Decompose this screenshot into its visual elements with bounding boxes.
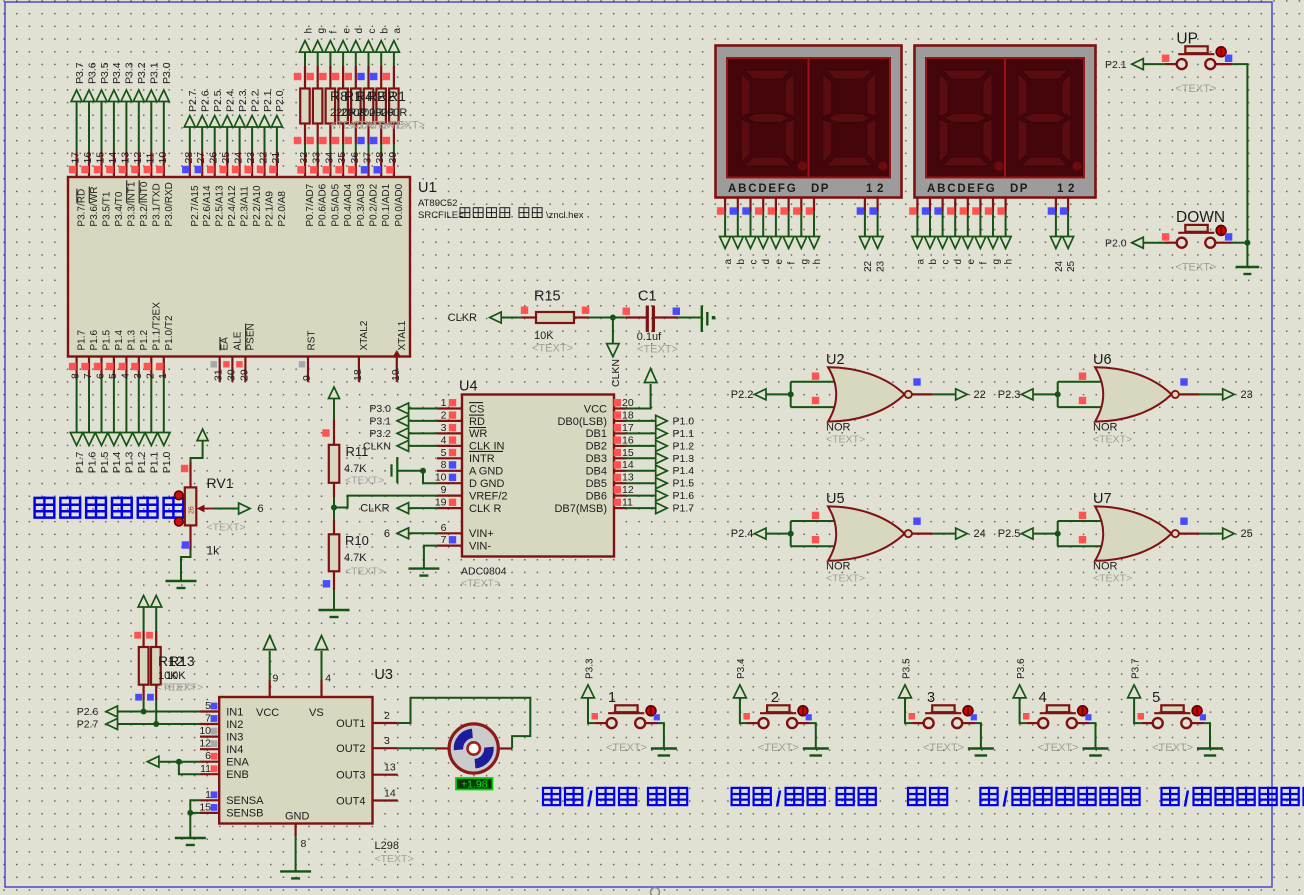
svg-text:24: 24 — [974, 528, 986, 540]
wire OUT2 to motor — [398, 747, 436, 749]
svg-text:15: 15 — [622, 447, 634, 459]
svg-text:P2.0/A8: P2.0/A8 — [277, 191, 288, 227]
blue caption set — [908, 787, 947, 806]
terminal arrow P2.5 — [1022, 528, 1034, 539]
U1 pin 30 (ALE) stub — [223, 357, 237, 382]
resistor R7 of pack (net b) — [370, 52, 386, 144]
net label a — [392, 28, 403, 34]
svg-text:XTAL1: XTAL1 — [397, 320, 408, 350]
U1 pin name P2.1/A9 — [265, 191, 276, 227]
net label 23 — [876, 260, 887, 272]
U3 pin name VCC — [256, 707, 279, 719]
svg-text:SENSB: SENSB — [226, 808, 263, 820]
U1 pin 31 (EA) stub — [211, 357, 225, 382]
svg-text:P3.3: P3.3 — [584, 658, 595, 679]
U1 pin name P1.2 — [139, 329, 150, 350]
U1 pin name P1.7 — [77, 329, 88, 350]
resistor pack TEXT overlap — [330, 120, 425, 132]
terminal arrow net P1.2 — [133, 433, 146, 446]
U1 pin name P3.1/TXD — [151, 183, 162, 226]
potentiometer RV1 body — [185, 487, 197, 525]
svg-text:P1.4: P1.4 — [111, 452, 123, 474]
U1 pin 26 stub+wire net P2.5 — [207, 127, 220, 177]
C1 value 0.1uf — [637, 331, 662, 343]
U3 pin name OUT4 — [336, 795, 365, 807]
wire button 5 to ground — [1192, 723, 1211, 748]
wire U6 output — [1179, 393, 1223, 395]
svg-text:P0.4/AD4: P0.4/AD4 — [343, 183, 354, 226]
svg-text:DB7(MSB): DB7(MSB) — [554, 503, 607, 515]
U4 value ADC0804 — [461, 566, 507, 578]
svg-text:8: 8 — [441, 459, 447, 471]
terminal arrow P2.4 — [755, 528, 767, 539]
U3 pin name OUT1 — [336, 718, 365, 730]
display1 pin net 22 — [857, 198, 865, 237]
svg-text:6: 6 — [95, 373, 107, 379]
IC U1 AT89C52 body — [68, 177, 410, 357]
svg-text:OUT4: OUT4 — [336, 795, 365, 807]
U4 pin name CLK R — [469, 503, 501, 515]
U4 pin 5 (INTR) stub — [437, 447, 462, 459]
U1 pin name P2.2/A10 — [252, 185, 263, 227]
svg-text:P3.5: P3.5 — [901, 658, 912, 679]
wire VIN- to ground — [424, 546, 437, 569]
svg-text:f: f — [978, 262, 989, 265]
display1 pin net 23 — [869, 198, 877, 237]
button 5 — [1138, 705, 1207, 728]
C1 designator — [638, 289, 657, 305]
U4 pin 19 (CLK R) stub — [435, 497, 462, 509]
terminal arrow net P1.7 — [70, 433, 83, 446]
svg-text:P1.4: P1.4 — [673, 465, 695, 477]
net label display1 d — [761, 259, 772, 265]
U4 pin name VIN+ — [469, 528, 494, 540]
svg-text:12: 12 — [199, 738, 211, 750]
U4 pin name VIN- — [469, 540, 491, 552]
svg-text:24: 24 — [1054, 260, 1065, 272]
U4 pin name CLK IN — [469, 441, 505, 453]
wire 6 to VIN+ — [409, 532, 437, 534]
svg-text:P3.1: P3.1 — [369, 415, 391, 427]
wire RV1 bottom — [181, 525, 191, 581]
net label P3.6 — [86, 62, 98, 84]
motor right stub — [500, 747, 512, 749]
svg-text:16: 16 — [622, 434, 634, 446]
U3 pin name ENB — [226, 769, 249, 781]
blue caption timer/light switch — [732, 787, 876, 811]
svg-text:P3.0: P3.0 — [369, 403, 391, 415]
terminal arrow 6 U4 — [397, 528, 409, 539]
U4 pin name DB5 — [586, 478, 607, 490]
svg-text:U2: U2 — [826, 352, 845, 368]
wire UP right to DOWN right — [1215, 64, 1247, 243]
wire U5 input from P2.4 — [766, 533, 791, 535]
svg-text:P0.1/AD1: P0.1/AD1 — [381, 183, 392, 226]
net label P3.2 — [136, 62, 148, 84]
button 5 number — [1152, 690, 1160, 706]
terminal arrow ENA (left) — [147, 756, 159, 767]
svg-text:U3: U3 — [374, 667, 393, 683]
U6 NOR label — [1093, 421, 1118, 433]
svg-text:ADC0804: ADC0804 — [461, 566, 507, 578]
U3 pin name IN1 — [226, 706, 243, 718]
button 3 number — [927, 690, 935, 706]
svg-text:<TEXT>: <TEXT> — [923, 742, 964, 754]
svg-text:P2.6: P2.6 — [200, 90, 212, 112]
U3 pin 1 (SENSA) stub — [200, 789, 219, 801]
svg-text:4.7K: 4.7K — [344, 552, 367, 564]
button 2 TEXT — [758, 742, 799, 754]
U1 pin name P0.1/AD1 — [381, 183, 392, 226]
terminal arrow display1 d — [758, 237, 769, 249]
net label P2.5 — [998, 528, 1021, 540]
svg-text:P2.5: P2.5 — [212, 90, 224, 112]
net label display1 e — [774, 259, 785, 265]
U1 pin name P2.7/A15 — [190, 185, 201, 227]
net label 24 — [974, 528, 986, 540]
U4 pin name CS — [469, 403, 484, 415]
U3 pin name IN3 — [226, 731, 243, 743]
U4 pin 7 square — [449, 536, 456, 543]
blue caption dec/manual stop — [1162, 787, 1304, 811]
wire CLKR to R15 — [501, 317, 521, 319]
wire U4 to P1.6 — [626, 495, 656, 497]
svg-text:10: 10 — [157, 152, 169, 164]
svg-text:P2.5: P2.5 — [998, 528, 1021, 540]
wire P3.5 to button 3 — [905, 698, 923, 723]
terminal arrow P1.4 — [656, 465, 668, 476]
resistor R11 body — [329, 445, 340, 483]
net label 24 — [1054, 260, 1065, 272]
display2 pin wire — [960, 198, 968, 237]
svg-text:<TEXT>: <TEXT> — [758, 742, 799, 754]
RV1 red marker bottom — [175, 517, 184, 526]
origin marker — [651, 888, 660, 895]
terminal arrow P1.7 — [656, 503, 668, 514]
svg-text:DP: DP — [1010, 183, 1029, 195]
ground button 2 — [803, 749, 829, 756]
terminal arrow net P2.0 — [271, 116, 282, 128]
terminal arrow P3.2 U4 — [397, 428, 409, 439]
U4 pin 15 (DB3) stub — [614, 447, 634, 459]
svg-text:200R: 200R — [381, 107, 407, 119]
terminal arrow net P1.0 — [158, 433, 171, 446]
wire U4 to P1.7 — [626, 507, 656, 509]
svg-text:5: 5 — [441, 447, 447, 459]
motor body — [449, 724, 498, 773]
U1 pin 4 stub+wire net P1.3 — [119, 357, 132, 433]
svg-text:1k: 1k — [207, 544, 221, 558]
terminal arrow CLKN U4 — [397, 440, 409, 451]
svg-text:DB5: DB5 — [586, 478, 607, 490]
net label P2.4 — [225, 90, 237, 112]
blue annotation simulated sunlight — [35, 496, 184, 517]
U1 pin 5 stub+wire net P1.4 — [106, 357, 119, 433]
terminal arrow P1.2 — [656, 440, 668, 451]
U4 underline CLK IN — [469, 450, 503, 452]
svg-text:P1.5: P1.5 — [673, 478, 695, 490]
net label P2.3 — [237, 90, 249, 112]
svg-text:VCC: VCC — [256, 707, 279, 719]
U1 pin name XTAL1 — [397, 320, 408, 350]
display2 pin wire — [909, 198, 917, 237]
svg-text:P3.3: P3.3 — [124, 62, 136, 84]
net label P2.1 — [262, 90, 274, 112]
svg-text:b: b — [736, 259, 747, 265]
svg-text:39: 39 — [387, 152, 399, 164]
svg-text:P1.6: P1.6 — [673, 490, 695, 502]
motor value display — [456, 778, 493, 791]
svg-text:f: f — [787, 262, 798, 265]
display2 pin wire — [934, 198, 942, 237]
wire VREF/2 to R divider — [334, 496, 437, 508]
terminal arrow CLKR — [490, 312, 502, 323]
U1 pin 34 stub net f — [323, 144, 336, 177]
svg-text:P2.1/A9: P2.1/A9 — [265, 191, 276, 227]
svg-text:17: 17 — [622, 422, 634, 434]
wire U6 input bottom — [1058, 406, 1105, 408]
svg-text:<TEXT>: <TEXT> — [532, 343, 573, 355]
U1 pin 1 stub+wire net P1.0 — [156, 357, 169, 433]
svg-text:22: 22 — [974, 389, 986, 401]
svg-text:OUT1: OUT1 — [336, 718, 365, 730]
terminal arrow P1.1 — [656, 428, 668, 439]
U3 pin 8 (GND) wire — [296, 824, 307, 872]
NOR gate U6 body — [1095, 367, 1179, 421]
button 3 TEXT — [923, 742, 964, 754]
net label CLKR (left) — [448, 312, 477, 324]
svg-text:/: / — [1184, 788, 1190, 811]
svg-text:P1.5: P1.5 — [102, 329, 113, 350]
U4 pin 8 square — [449, 461, 456, 468]
svg-text:P2.3: P2.3 — [237, 90, 249, 112]
net label P3.4 — [736, 658, 747, 679]
U7 NOR label — [1093, 561, 1118, 573]
U4 pin 2 square — [449, 411, 456, 418]
U4 pin 14 (DB4) stub — [614, 459, 634, 471]
U3 pin 5 (IN1) stub — [200, 700, 219, 712]
wire U4 to P1.2 — [626, 445, 656, 447]
terminal arrow net P2.7 — [184, 116, 195, 128]
svg-text:h: h — [1004, 259, 1015, 265]
svg-text:8: 8 — [70, 373, 82, 379]
svg-text:EA: EA — [220, 337, 231, 351]
U4 pin 3 (WR) stub — [437, 422, 462, 434]
terminal arrow net P1.1 — [145, 433, 158, 446]
R10 TEXT — [345, 566, 384, 578]
svg-text:13: 13 — [622, 472, 634, 484]
U4 overline CS — [469, 402, 483, 404]
svg-text:DB3: DB3 — [586, 453, 607, 465]
svg-text:e: e — [774, 259, 785, 265]
ground VIN- — [408, 569, 439, 576]
svg-text:C1: C1 — [638, 289, 657, 305]
R11 TEXT — [345, 475, 384, 487]
U1 pin name P3.5/T1 — [102, 191, 113, 226]
U1 pin name P0.7/AD7 — [305, 183, 316, 226]
U4 pin 4 square — [449, 436, 456, 443]
terminal arrow net P3.7 — [71, 90, 82, 102]
U1 pin name XTAL2 — [359, 320, 370, 350]
terminal arrow P3.6 — [1013, 685, 1026, 698]
net label P2.2 — [731, 389, 754, 401]
U1 pin 19 (XTAL1) stub — [390, 350, 402, 382]
svg-text:P2.1: P2.1 — [262, 90, 274, 112]
terminal arrow P3.3 — [582, 685, 595, 698]
net label P2.3 — [998, 389, 1021, 401]
U4 pin name DB6 — [586, 490, 607, 502]
svg-text:14: 14 — [622, 459, 634, 471]
net label d — [354, 28, 365, 34]
svg-text:IN4: IN4 — [226, 744, 243, 756]
svg-text:IN3: IN3 — [226, 731, 243, 743]
terminal arrow net P3.5 — [96, 90, 107, 102]
U1 pin name P1.0/T2 — [164, 315, 175, 350]
svg-text:SRCFILE=: SRCFILE= — [418, 210, 464, 221]
svg-text:3: 3 — [927, 690, 935, 706]
wire R11 top — [322, 399, 334, 445]
svg-text:13: 13 — [384, 762, 396, 774]
wire C1 to cell — [677, 317, 701, 319]
display2 pin net 24 — [1048, 198, 1056, 237]
terminal arrow net 25 — [1063, 237, 1074, 249]
U1 pin name P2.4/A12 — [227, 185, 238, 227]
svg-text:19: 19 — [390, 369, 402, 381]
U4 pin name DB7(MSB) — [554, 503, 607, 515]
U4 pin 13 (DB5) stub — [614, 472, 634, 484]
U3 pin 3 (OUT2) stub — [373, 735, 398, 748]
svg-text:<TEXT>: <TEXT> — [1093, 573, 1132, 585]
U6 input squares — [1079, 373, 1086, 405]
wire P3.4 to button 2 — [740, 698, 758, 723]
svg-text:P1.3: P1.3 — [673, 453, 695, 465]
svg-text:2: 2 — [144, 373, 156, 379]
terminal arrow P2.1 — [1132, 59, 1144, 70]
net label 23 — [1241, 389, 1253, 401]
net label h — [303, 28, 314, 34]
svg-text:<TEXT>: <TEXT> — [1038, 742, 1079, 754]
U1 pin 3 stub+wire net P1.2 — [131, 357, 144, 433]
svg-text:2: 2 — [771, 690, 779, 706]
terminal arrow display1 h — [809, 237, 820, 249]
svg-text:c: c — [941, 260, 952, 265]
svg-text:3: 3 — [384, 735, 390, 747]
wire SENSA — [187, 800, 200, 838]
svg-text:P2.4/A12: P2.4/A12 — [227, 185, 238, 227]
net label e — [341, 28, 352, 34]
svg-text:g: g — [316, 28, 327, 34]
U4 pin 4 (CLK IN) stub — [437, 434, 462, 446]
display2 pin wire — [972, 198, 980, 237]
svg-text:P1.3: P1.3 — [126, 329, 137, 350]
svg-text:6: 6 — [384, 528, 390, 540]
svg-text:IN1: IN1 — [226, 706, 243, 718]
svg-text:d: d — [761, 259, 772, 265]
svg-text:P2.4: P2.4 — [225, 90, 237, 112]
U5 TEXT — [826, 573, 865, 585]
svg-text:10: 10 — [435, 472, 447, 484]
RV1 value 1k — [207, 544, 221, 558]
blue caption inc/manual start — [980, 787, 1139, 811]
motor left stub — [436, 747, 448, 749]
U3 pin name IN2 — [226, 719, 243, 731]
svg-text:a: a — [392, 28, 403, 34]
U4 pin name DB1 — [586, 428, 607, 440]
button 1 number — [608, 690, 616, 706]
wire R13 bottom to IN2 row — [147, 685, 159, 727]
terminal arrow U2 out — [956, 389, 968, 400]
U1 pin name P0.4/AD4 — [343, 183, 354, 226]
U1 pin 8 stub+wire net P1.7 — [69, 357, 82, 433]
wire U7 input bar — [1055, 521, 1061, 546]
svg-text:A GND: A GND — [469, 466, 503, 478]
svg-text:12: 12 — [622, 484, 634, 496]
svg-text:INTR: INTR — [469, 453, 495, 465]
svg-text:RD: RD — [469, 416, 485, 428]
wire U5 input bottom — [791, 545, 838, 547]
U1 pin name P3.6/WR — [89, 187, 100, 227]
svg-text:22: 22 — [863, 260, 874, 272]
svg-text:6: 6 — [441, 522, 447, 534]
svg-text:c: c — [749, 260, 760, 265]
svg-text:19: 19 — [435, 497, 447, 509]
U3 pin 7 (IN2) stub — [200, 713, 219, 725]
IC U3 L298 body — [219, 697, 372, 824]
net label P2.4 — [731, 528, 754, 540]
svg-text:21: 21 — [270, 152, 282, 164]
resistor R2 of pack (net g) — [307, 52, 323, 144]
svg-text:6: 6 — [258, 503, 264, 515]
terminal arrow display1 c — [745, 237, 756, 249]
wire U4 to P1.0 — [626, 420, 656, 422]
U4 overline WR — [469, 427, 486, 429]
svg-text:P2.0: P2.0 — [1105, 237, 1127, 249]
svg-text:25: 25 — [1066, 260, 1077, 272]
svg-text:4.7K: 4.7K — [344, 463, 367, 475]
wire U7 output — [1179, 532, 1223, 534]
RV1 designator — [207, 475, 234, 491]
terminal arrow net P3.2 — [133, 90, 144, 102]
button 4 — [1023, 705, 1092, 728]
wire U6 input from P2.3 — [1033, 393, 1058, 395]
terminal arrow U6 out — [1223, 389, 1235, 400]
net label P1.2 — [136, 452, 148, 474]
U7 designator — [1093, 491, 1112, 507]
svg-text:9: 9 — [273, 673, 279, 685]
U1 pin name P3.7/RD — [77, 189, 88, 227]
display2 pin wire — [985, 198, 993, 237]
U3 pin name VS — [309, 707, 324, 719]
svg-text:1: 1 — [157, 373, 169, 379]
R10 value 4.7K — [344, 552, 367, 564]
svg-text:OUT3: OUT3 — [336, 770, 365, 782]
net label P1.3 — [673, 453, 695, 465]
svg-text:/: / — [776, 788, 782, 811]
svg-text:P2.7: P2.7 — [77, 719, 99, 731]
U1 pin 15 stub+wire net P3.5 — [94, 102, 107, 178]
wire ENB branch — [179, 762, 200, 775]
U1 pin name P1.3 — [126, 329, 137, 350]
svg-text:g: g — [799, 259, 810, 265]
svg-text:P2.2: P2.2 — [249, 90, 261, 112]
wire DOWN right junction — [1215, 240, 1250, 246]
U7 TEXT — [1093, 573, 1132, 585]
svg-text:3: 3 — [441, 422, 447, 434]
U4 pin 17 (DB1) stub — [614, 422, 634, 434]
svg-text:P3.4: P3.4 — [111, 62, 123, 84]
U4 pin name VREF/2 — [469, 490, 508, 502]
wire R12 bottom to IN1 row — [135, 685, 146, 715]
